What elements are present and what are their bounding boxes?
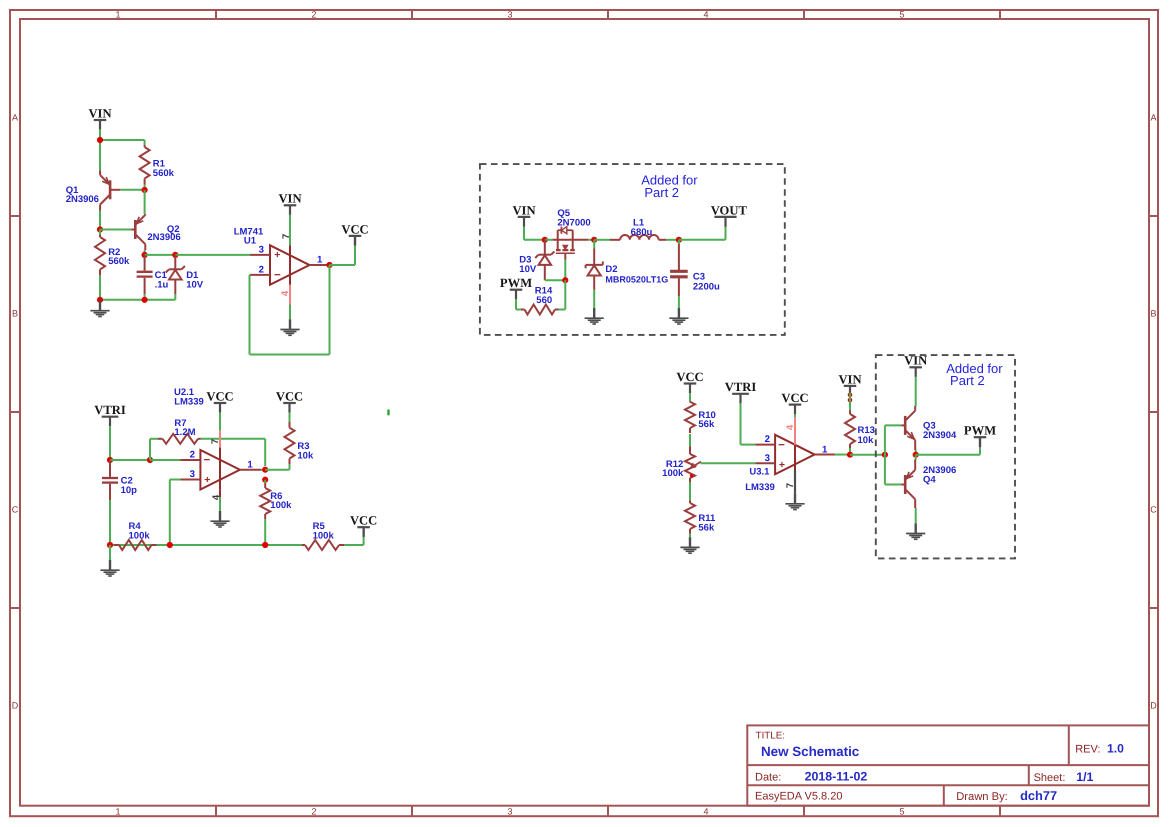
resistor R7 1.2M xyxy=(150,438,158,440)
wire Q4 emitter from PWM node xyxy=(915,455,917,460)
svg-text:1.2M: 1.2M xyxy=(174,427,195,438)
svg-text:3: 3 xyxy=(765,453,770,464)
U1 pin 3 xyxy=(250,254,270,256)
zener diode D1 10V xyxy=(174,255,176,269)
svg-text:1: 1 xyxy=(115,806,120,816)
ground R11 xyxy=(689,537,691,547)
wire D3 bottom to gate node xyxy=(545,279,566,281)
svg-text:REV:: REV: xyxy=(1075,744,1100,756)
svg-text:560: 560 xyxy=(536,295,552,306)
transistor Q1 2N3906 xyxy=(109,180,112,199)
svg-text:Part 2: Part 2 xyxy=(950,373,985,388)
svg-text:560k: 560k xyxy=(153,168,175,179)
junction C1 bottom xyxy=(142,297,148,303)
svg-text:10k: 10k xyxy=(297,451,314,462)
svg-text:U1: U1 xyxy=(244,236,257,247)
junction R2 / ground xyxy=(97,297,103,303)
svg-text:TITLE:: TITLE: xyxy=(756,730,785,741)
junction node R1/Q1 base xyxy=(142,187,148,193)
svg-text:100k: 100k xyxy=(129,531,151,542)
svg-text:VIN: VIN xyxy=(88,106,111,120)
junction L1 / C3 / VOUT xyxy=(676,237,682,243)
svg-text:3: 3 xyxy=(259,244,264,255)
wire VTRI below rail xyxy=(109,545,111,560)
wire mid rail to D1 xyxy=(145,254,176,256)
svg-text:C: C xyxy=(12,504,19,514)
wire VIN to U1 pin 7 xyxy=(289,215,291,245)
wire Q1 base to R1 node xyxy=(120,189,145,191)
wire U2 pin 4 to ground xyxy=(219,497,221,511)
junction base node xyxy=(882,452,888,458)
svg-text:.1u: .1u xyxy=(155,280,169,291)
potentiometer R12 100k xyxy=(689,447,691,455)
svg-text:100k: 100k xyxy=(270,500,292,511)
svg-text:2: 2 xyxy=(259,264,264,275)
svg-text:MBR0520LT1G: MBR0520LT1G xyxy=(605,274,668,284)
svg-text:100k: 100k xyxy=(662,468,684,479)
U2 pin 3 xyxy=(180,479,200,481)
svg-text:2N7000: 2N7000 xyxy=(557,217,590,228)
ground D2 xyxy=(593,308,595,318)
U3 pin 2 xyxy=(755,444,775,446)
wire output to R3 xyxy=(265,469,289,471)
U3 pin 1 output xyxy=(815,454,835,456)
ground Q4 xyxy=(915,523,917,533)
svg-text:−: − xyxy=(778,439,785,451)
transistor Q3 2N3904 xyxy=(904,416,907,435)
svg-text:3: 3 xyxy=(507,806,512,816)
svg-text:4: 4 xyxy=(785,424,796,430)
wire PWM node right xyxy=(916,454,980,456)
U2 supply line through body xyxy=(219,448,221,490)
wire VIN stub to node xyxy=(99,129,101,140)
svg-text:680u: 680u xyxy=(631,227,653,238)
svg-text:3: 3 xyxy=(190,469,195,480)
stray green tick xyxy=(387,410,389,416)
wire VIN to Q3 collector xyxy=(915,377,917,406)
junction VTRI bottom xyxy=(107,542,113,548)
wire U1 pin 4 to ground xyxy=(289,305,291,320)
U3 supply line through body xyxy=(794,445,796,470)
wire VIN to R13 xyxy=(849,393,851,411)
border column ticks bottom xyxy=(215,806,217,817)
svg-text:U3.1: U3.1 xyxy=(749,467,770,478)
junction R7 branch xyxy=(147,457,153,463)
junction VIN stub dots xyxy=(848,393,853,398)
svg-text:2: 2 xyxy=(311,806,316,816)
svg-text:VIN: VIN xyxy=(278,192,301,206)
capacitor C1 .1u xyxy=(144,255,146,271)
ground U2 xyxy=(219,511,221,521)
svg-text:Date:: Date: xyxy=(755,772,781,784)
svg-text:2N3906: 2N3906 xyxy=(66,194,99,205)
ground U1 xyxy=(289,319,291,329)
wire to U2 pin 2 xyxy=(150,459,180,461)
transistor Q2 2N3906 xyxy=(134,220,137,239)
resistor R4 100k xyxy=(114,544,119,546)
svg-text:D: D xyxy=(1150,700,1157,710)
wire Q4 base xyxy=(885,484,901,486)
wire Q2 base xyxy=(100,229,131,231)
resistor R10 56k xyxy=(689,400,691,403)
svg-text:2: 2 xyxy=(311,9,316,19)
svg-text:VOUT: VOUT xyxy=(711,203,748,217)
op-amp U1 LM741 xyxy=(270,245,310,284)
svg-text:5: 5 xyxy=(899,9,904,19)
ground GND2 xyxy=(109,560,111,570)
wire U1 output to VCC xyxy=(330,264,356,266)
wire bottom rail mid circuit xyxy=(110,544,302,546)
U3 pin 3 xyxy=(755,462,775,464)
title block outline xyxy=(747,725,1149,805)
svg-text:2N3904: 2N3904 xyxy=(923,430,957,441)
wire Q1 collector down to Q2 base node xyxy=(99,211,101,230)
svg-text:VIN: VIN xyxy=(904,354,927,368)
svg-text:New Schematic: New Schematic xyxy=(761,744,860,759)
junction node Q1 collector / Q2 base / R2 xyxy=(97,226,103,232)
U1 pin 2 xyxy=(250,274,270,276)
svg-text:VIN: VIN xyxy=(838,372,861,386)
svg-text:VTRI: VTRI xyxy=(94,403,126,417)
op-amp U3.1 LM339 xyxy=(775,435,815,475)
wire VIN to D3 node xyxy=(524,239,545,241)
inductor L1 680u xyxy=(594,239,610,241)
svg-text:10V: 10V xyxy=(519,264,537,275)
border row ticks right xyxy=(1149,215,1158,217)
junction PWM node xyxy=(913,452,919,458)
junction gate / D3 / R14 xyxy=(562,277,568,283)
wire R12 wiper to U3 pin 3 xyxy=(701,462,756,464)
ground C3 xyxy=(678,308,680,318)
wire Q2 collector to mid rail xyxy=(144,250,146,255)
svg-text:4: 4 xyxy=(280,290,291,296)
svg-text:56k: 56k xyxy=(698,523,715,534)
wire VCC to R3 xyxy=(289,413,291,422)
wire node to Q5 xyxy=(545,239,553,241)
junction R6 bottom xyxy=(262,542,268,548)
U2 pin 2 xyxy=(180,459,200,461)
svg-text:VCC: VCC xyxy=(350,514,377,528)
svg-text:VCC: VCC xyxy=(676,370,703,384)
wire VCC to U3 xyxy=(794,414,796,417)
junction R13 / output xyxy=(847,452,853,458)
svg-text:VCC: VCC xyxy=(781,391,808,405)
svg-text:Drawn By:: Drawn By: xyxy=(956,791,1008,803)
svg-text:2: 2 xyxy=(190,449,195,460)
junction below output xyxy=(262,477,268,483)
wire U1 feedback down xyxy=(329,265,331,355)
svg-text:10k: 10k xyxy=(858,435,875,446)
svg-text:Sheet:: Sheet: xyxy=(1034,772,1066,784)
wire U1 feedback up to pin 2 xyxy=(249,275,251,355)
svg-text:2018-11-02: 2018-11-02 xyxy=(805,770,868,784)
svg-text:−: − xyxy=(274,269,281,281)
wire R1 top corner down xyxy=(144,140,146,145)
junction VTRI / C2 / wire xyxy=(107,457,113,463)
op-amp U2.1 LM339 xyxy=(200,450,240,490)
svg-text:Q4: Q4 xyxy=(923,474,936,485)
wire R7 up xyxy=(149,439,151,460)
svg-text:560k: 560k xyxy=(108,256,130,267)
resistor R5 100k xyxy=(302,544,305,546)
U1 pin 7 line through body xyxy=(289,245,291,284)
dashed box Added for Part 2 (top) xyxy=(480,164,785,335)
svg-text:+: + xyxy=(274,249,280,261)
wire U1 feedback bottom xyxy=(250,354,330,356)
junction D3 / Q5 drain xyxy=(542,237,548,243)
svg-text:LM339: LM339 xyxy=(174,397,204,408)
wire Q4 collector to ground xyxy=(915,508,917,523)
wire VTRI down to U3 pin 2 xyxy=(740,403,742,444)
svg-text:dch77: dch77 xyxy=(1020,788,1057,803)
wire PWM to R14 xyxy=(516,309,521,311)
svg-text:1: 1 xyxy=(115,9,120,19)
wire mid rail to op-amp pin 3 xyxy=(175,254,250,256)
wire to VOUT xyxy=(679,239,726,241)
junction Q2 collector / C1 xyxy=(142,252,148,258)
resistor R13 10k xyxy=(849,411,851,415)
wire Q3 base xyxy=(885,424,901,426)
wire Q5 to D2 node xyxy=(588,239,594,241)
svg-text:4: 4 xyxy=(703,806,708,816)
wire R14 to gate node xyxy=(559,309,566,311)
schottky diode D2 MBR0520LT1G xyxy=(593,240,595,249)
resistor R14 560 xyxy=(521,309,525,311)
wire VTRI node right xyxy=(110,459,150,461)
capacitor C3 2200u xyxy=(678,240,680,244)
svg-text:+: + xyxy=(204,474,210,486)
svg-text:PWM: PWM xyxy=(964,424,996,438)
svg-text:1/1: 1/1 xyxy=(1076,770,1093,784)
svg-text:7: 7 xyxy=(785,483,796,488)
dashed box Added for Part 2 (right) xyxy=(876,355,1015,558)
ground GND1 xyxy=(99,301,101,311)
wire U2 pin 3 left and down xyxy=(170,479,181,481)
svg-text:VCC: VCC xyxy=(206,389,233,403)
svg-text:5: 5 xyxy=(899,806,904,816)
svg-text:7: 7 xyxy=(281,234,292,239)
svg-text:2200u: 2200u xyxy=(693,282,720,293)
svg-text:1: 1 xyxy=(317,255,323,266)
svg-text:10V: 10V xyxy=(186,280,204,291)
wire gate lead to node xyxy=(564,260,566,281)
svg-text:Part 2: Part 2 xyxy=(644,185,679,200)
svg-text:VIN: VIN xyxy=(512,203,535,217)
svg-text:1.0: 1.0 xyxy=(1107,742,1124,756)
resistor R1 xyxy=(144,145,146,147)
U3 pin 7 to ground xyxy=(794,470,796,494)
resistor R11 56k xyxy=(689,501,691,504)
wire Q1 emitter from VIN node xyxy=(99,140,101,170)
svg-text:C: C xyxy=(1150,504,1157,514)
resistor R2 xyxy=(99,230,101,236)
svg-text:LM339: LM339 xyxy=(745,482,775,493)
U2 pin 4 segment xyxy=(219,490,221,497)
border column ticks top xyxy=(215,10,217,19)
junction node VIN/R1 xyxy=(97,137,103,143)
svg-text:100k: 100k xyxy=(313,531,335,542)
wire node to R1 top xyxy=(100,139,145,141)
svg-text:2N3906: 2N3906 xyxy=(147,232,180,243)
junction pin3 branch bottom xyxy=(167,542,173,548)
svg-text:B: B xyxy=(12,308,18,318)
wire VIN down to rail xyxy=(523,227,525,240)
ground U3 xyxy=(794,494,796,504)
junction Q5 / D2 / L1 xyxy=(591,237,597,243)
zener diode D3 10V xyxy=(544,240,546,255)
R12 wiper arrow xyxy=(692,462,701,467)
capacitor C2 10p xyxy=(109,460,111,477)
svg-text:EasyEDA V5.8.20: EasyEDA V5.8.20 xyxy=(755,791,842,803)
svg-text:10p: 10p xyxy=(121,485,138,496)
svg-text:+: + xyxy=(779,459,785,471)
junction U2 output xyxy=(262,467,268,473)
wire R5 to VCC xyxy=(344,544,364,546)
U3 pin 4 red segment xyxy=(794,417,796,445)
U2 pin 7 red segment xyxy=(219,430,221,447)
svg-text:VCC: VCC xyxy=(276,389,303,403)
junction U1 output xyxy=(326,262,332,268)
svg-text:D: D xyxy=(12,700,19,710)
mosfet Q5 2N7000 xyxy=(552,239,588,241)
svg-text:1: 1 xyxy=(822,445,828,456)
svg-text:1: 1 xyxy=(247,459,253,470)
wire VCC to R10 xyxy=(689,393,691,401)
svg-text:7: 7 xyxy=(210,439,221,444)
U2 pin 1 output xyxy=(240,469,261,471)
wire bottom rail left circuit xyxy=(100,299,175,301)
resistor R6 100k xyxy=(264,480,266,483)
U1 pin 1 output xyxy=(310,264,330,266)
svg-text:VCC: VCC xyxy=(341,222,368,236)
svg-text:A: A xyxy=(1150,112,1156,122)
wire base vertical xyxy=(884,425,886,484)
svg-text:VTRI: VTRI xyxy=(725,380,757,394)
svg-text:4: 4 xyxy=(703,9,708,19)
border row ticks left xyxy=(10,215,20,217)
wire VTRI down xyxy=(109,426,111,460)
wire PWM down xyxy=(515,299,517,309)
wire Q3 emitter to PWM node xyxy=(915,450,917,455)
svg-text:2: 2 xyxy=(765,434,770,445)
wire R7 to output node xyxy=(201,438,266,440)
svg-text:−: − xyxy=(203,455,210,467)
junction D1 top xyxy=(172,252,178,258)
resistor R3 10k xyxy=(289,422,291,428)
wire Q2 emitter from R1 node xyxy=(144,190,146,214)
svg-text:B: B xyxy=(1150,308,1156,318)
transistor Q4 2N3906 xyxy=(904,475,907,494)
U1 pin 4 line (red) xyxy=(289,285,291,305)
svg-text:3: 3 xyxy=(507,9,512,19)
svg-text:A: A xyxy=(12,112,18,122)
svg-text:56k: 56k xyxy=(698,419,715,430)
wire output to base node xyxy=(850,454,885,456)
wire R1 bottom to node xyxy=(144,185,146,191)
svg-text:PWM: PWM xyxy=(500,276,532,290)
wire VCC to U2 xyxy=(219,413,221,431)
